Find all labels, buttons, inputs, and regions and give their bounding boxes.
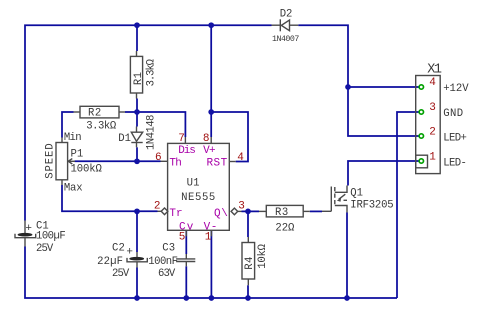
wire Q1 source to GND bus	[346, 213, 348, 299]
node junction +12V at X1 pin4 branch	[345, 84, 351, 90]
svg-text:NE555: NE555	[181, 192, 216, 204]
svg-text:GND: GND	[443, 108, 463, 120]
svg-text:R4: R4	[244, 256, 256, 270]
svg-text:7: 7	[178, 133, 185, 145]
svg-text:1: 1	[429, 152, 436, 164]
svg-text:100kΩ: 100kΩ	[71, 164, 103, 176]
node junction GND bus at C3	[183, 295, 189, 301]
node junction Tr at C2 branch	[134, 208, 140, 214]
wire R1 bottom to Dis node	[136, 99, 138, 113]
node junction GND bus at V-	[209, 295, 215, 301]
U1 pin number 3	[238, 201, 245, 213]
net label GND	[443, 108, 463, 120]
pin 3 inversion diamond	[231, 208, 238, 215]
svg-text:RST: RST	[207, 157, 228, 169]
svg-text:+: +	[25, 223, 32, 235]
X1 pin 1 circle	[419, 159, 423, 163]
resistor R3	[259, 205, 310, 234]
svg-text:Th: Th	[169, 157, 181, 169]
wire C2 branch from Tr node	[136, 211, 138, 252]
net label LED+	[443, 133, 466, 145]
svg-text:Dis: Dis	[178, 145, 195, 157]
wire LED- from X1 pin1 to Q1 drain	[348, 161, 419, 186]
diode D1 1N4148	[118, 115, 157, 150]
wire GND riser to X1 pin3	[397, 112, 419, 298]
svg-text:22Ω: 22Ω	[275, 222, 295, 234]
wire left GND segment below C1	[25, 247, 397, 299]
connector X1	[416, 63, 442, 174]
U1 pin number 5	[179, 232, 186, 244]
svg-text:P1: P1	[71, 148, 84, 160]
U1 pin number 2	[154, 201, 161, 213]
svg-text:D2: D2	[280, 8, 293, 20]
transistor Q1 IRF3205	[322, 186, 393, 213]
X1 pin number 2	[429, 127, 436, 139]
svg-text:2: 2	[429, 127, 436, 139]
wire Th net wiper to pin6	[75, 160, 161, 162]
svg-text:8: 8	[203, 133, 210, 145]
wire P1 Max to Tr net	[62, 185, 158, 211]
U1 pin name Tr	[169, 208, 182, 220]
wire Cv pin5 down	[185, 230, 187, 254]
svg-text:R3: R3	[275, 207, 289, 219]
svg-text:LED-: LED-	[443, 158, 466, 170]
svg-text:IRF3205: IRF3205	[350, 200, 393, 212]
X1 pin number 3	[429, 102, 436, 114]
wire R2 left to P1 Min	[62, 112, 74, 138]
resistor R4	[242, 237, 269, 285]
wire Q output pin3 to R3	[242, 210, 260, 212]
U1 pin number 6	[155, 152, 162, 164]
svg-text:100nF: 100nF	[148, 256, 177, 268]
svg-text:1N4148: 1N4148	[145, 115, 157, 150]
U1 pin number 7	[178, 133, 185, 145]
U1 pin name V+	[203, 145, 215, 157]
net label LED-	[443, 158, 466, 170]
svg-text:10kΩ: 10kΩ	[257, 243, 269, 268]
X1 pin 3 circle	[419, 110, 423, 114]
svg-text:6: 6	[155, 152, 162, 164]
wire V- pin1 to GND bus	[210, 230, 212, 298]
resistor R1	[130, 51, 157, 99]
svg-text:5: 5	[179, 232, 186, 244]
wire C2 bottom to GND bus	[136, 268, 138, 299]
svg-text:1N4007: 1N4007	[272, 35, 299, 44]
svg-text:R1: R1	[133, 72, 145, 86]
svg-text:3: 3	[238, 201, 245, 213]
svg-text:25V: 25V	[112, 268, 130, 280]
U1 pin number 1	[205, 232, 212, 244]
svg-text:U1: U1	[187, 177, 200, 189]
svg-text:63V: 63V	[158, 268, 176, 280]
svg-text:+: +	[126, 247, 133, 259]
svg-text:Tr: Tr	[169, 208, 182, 220]
svg-text:D1: D1	[118, 133, 131, 145]
svg-text:3.3kΩ: 3.3kΩ	[86, 121, 117, 133]
svg-text:100µF: 100µF	[36, 230, 65, 242]
svg-text:+12V: +12V	[443, 83, 469, 95]
svg-text:1: 1	[205, 232, 212, 244]
node junction RST at V+ riser	[208, 109, 214, 115]
X1 pin number 4	[429, 77, 436, 89]
wire D1 cathode to Th net	[136, 147, 138, 161]
svg-text:4: 4	[429, 77, 436, 89]
svg-text:3: 3	[429, 102, 436, 114]
svg-text:2: 2	[154, 201, 161, 213]
wire RST to V+	[211, 112, 248, 162]
wire R3 to Q1 gate	[310, 210, 322, 212]
U1 pin name V-	[204, 221, 218, 233]
svg-text:3.3kΩ: 3.3kΩ	[146, 58, 158, 86]
U1 pin name Q out	[214, 208, 228, 220]
node junction Dis at R1 bottom	[134, 109, 140, 115]
svg-text:V+: V+	[203, 145, 215, 157]
svg-text:R2: R2	[88, 107, 102, 119]
net label +12V	[443, 83, 469, 95]
U1 pin name Dis	[178, 145, 195, 157]
wire C3 bottom to GND bus	[185, 266, 187, 298]
U1 pin number 8	[203, 133, 210, 145]
U1 pin name Th	[169, 157, 181, 169]
svg-text:4: 4	[237, 152, 244, 164]
wire +12V branch to X1 pin4	[348, 86, 419, 88]
node junction GND bus at R4	[245, 295, 251, 301]
svg-text:25V: 25V	[36, 243, 54, 255]
resistor R2	[74, 106, 126, 132]
U1 pin name RST	[207, 157, 228, 169]
diode D2 1N4007	[272, 8, 300, 44]
wire D2 anode to corner down to LED+	[298, 25, 419, 136]
node junction GND bus at Q1 source	[344, 295, 350, 301]
pin 2 inversion diamond	[161, 208, 168, 215]
svg-text:X1: X1	[427, 63, 442, 78]
op-amp U1 NE555 timer box	[158, 137, 242, 236]
svg-text:Q1: Q1	[350, 188, 363, 200]
node junction Q out at R4 branch	[245, 209, 251, 215]
U1 pin number 4	[237, 152, 244, 164]
capacitor C1 100uF electrolytic	[15, 221, 65, 256]
svg-text:C3: C3	[162, 242, 175, 254]
node junction top bus at V+	[208, 22, 214, 28]
capacitor C3 100nF	[148, 242, 195, 279]
svg-text:Max: Max	[64, 182, 82, 194]
svg-text:Min: Min	[64, 132, 81, 144]
node junction GND bus at C2	[134, 295, 140, 301]
X1 pin number 1	[429, 152, 436, 164]
X1 pin 2 circle	[419, 134, 423, 138]
wire top +12V bus left segment	[25, 25, 272, 220]
U1 pin name Cv	[179, 221, 195, 233]
svg-text:SPEED: SPEED	[44, 143, 56, 179]
wire R1 top stub net	[136, 25, 138, 51]
svg-text:22µF: 22µF	[97, 256, 123, 268]
X1 pin 4 circle	[419, 85, 423, 89]
potentiometer P1	[44, 132, 102, 194]
wire Dis net horizontal R2 to pin7	[125, 112, 185, 137]
wire R4 bottom to GND bus	[247, 285, 249, 298]
wire D1 anode stub net	[136, 112, 138, 127]
wire V+ pin8 from top bus	[210, 25, 212, 137]
wire R4 branch from Q node	[247, 211, 249, 237]
svg-text:C2: C2	[112, 242, 125, 254]
capacitor C2 22uF electrolytic	[97, 242, 147, 279]
svg-text:LED+: LED+	[443, 133, 466, 145]
svg-text:Q\: Q\	[214, 208, 228, 220]
node junction Th at D1 cathode	[134, 158, 140, 164]
node junction top bus at R1	[134, 22, 140, 28]
